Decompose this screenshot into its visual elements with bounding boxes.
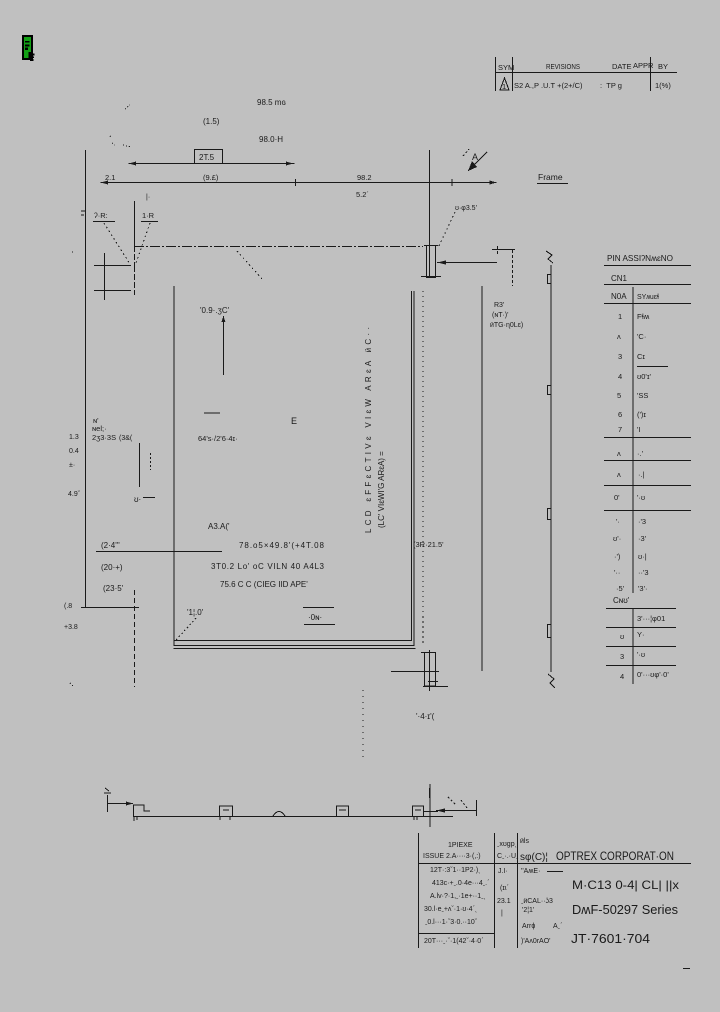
svg-text:Fɬʍ: Fɬʍ [637, 312, 650, 321]
svg-text:N0A: N0A [611, 292, 627, 301]
svg-text:REVISIONS: REVISIONS [546, 62, 580, 71]
svg-text:ʊ0'ɪ': ʊ0'ɪ' [637, 372, 652, 381]
svg-text:98.0·H: 98.0·H [259, 135, 283, 144]
svg-text:(ɪɩˊ: (ɪɩˊ [500, 885, 509, 892]
label 2 with tick [134, 495, 155, 504]
svg-text:'·: '· [616, 517, 620, 526]
svg-text:ˍ0.l···1·ˇ3·0.··10ˇ: ˍ0.l···1·ˇ3·0.··10ˇ [425, 919, 478, 926]
svg-text:sφ(C)¦: sφ(C)¦ [520, 852, 548, 863]
tolerance header [423, 842, 481, 860]
left main extension line [85, 150, 87, 607]
svg-text:(3&(: (3&( [119, 435, 133, 442]
svg-text:'·4·ɪ'(: '·4·ɪ'( [416, 712, 435, 721]
svg-text:CN1: CN1 [611, 274, 628, 283]
svg-text:5: 5 [617, 391, 621, 400]
svg-text:R3': R3' [494, 302, 504, 309]
page dash bottom right [683, 968, 690, 970]
svg-text:2T.5: 2T.5 [199, 153, 215, 162]
svg-text:4: 4 [618, 372, 622, 381]
svg-text:Cɴʊ': Cɴʊ' [613, 596, 630, 605]
svg-text:(ɴT·)': (ɴT·)' [492, 312, 508, 319]
svg-text:DATE: DATE [612, 62, 631, 71]
svg-text:98.2: 98.2 [357, 173, 372, 182]
name row [521, 868, 540, 875]
svg-text:ʌ: ʌ [617, 332, 621, 341]
tab 3 [337, 806, 349, 816]
svg-text:ˍxʊgpˎ: ˍxʊgpˎ [497, 841, 517, 848]
svg-text:Arrɸ: Arrɸ [522, 923, 535, 930]
svg-text:(2·4''': (2·4''' [101, 541, 120, 550]
svg-text:20T···ˍ·ˇ·1(42ˇ·4·0ˊ: 20T···ˍ·ˇ·1(42ˇ·4·0ˊ [424, 938, 484, 945]
svg-text:2.1: 2.1 [105, 173, 115, 182]
svg-text:4.9ˇ: 4.9ˇ [68, 491, 81, 498]
svg-text:A: A [472, 152, 478, 162]
svg-text:6: 6 [618, 410, 622, 419]
tolerance rows [424, 867, 489, 945]
svg-text:·3': ·3' [638, 534, 647, 543]
svg-text:'·ʊ: '·ʊ [637, 493, 645, 502]
top-left faint arc dots [110, 105, 131, 147]
top dimension texts [203, 98, 286, 144]
svg-text:'2¦1': '2¦1' [522, 907, 534, 914]
svg-text:S2 A.,P .U.T +(2+/C): S2 A.,P .U.T +(2+/C) [514, 81, 583, 90]
right dim [436, 810, 476, 812]
flatness detail box [303, 608, 335, 625]
svg-text:·'3: ·'3 [638, 517, 646, 526]
9.5 bracket marks [492, 246, 515, 286]
svg-text:''AʍE·: ''AʍE· [521, 868, 540, 875]
svg-text:0.4: 0.4 [69, 448, 79, 455]
extension line above corner [134, 201, 136, 246]
top-right mounting tab [421, 246, 441, 278]
display window left edge [173, 286, 175, 646]
svg-text:·5': ·5' [616, 584, 625, 593]
svg-text:(.8: (.8 [64, 603, 72, 610]
bottom-right mounting tab detail [391, 650, 448, 691]
svg-text:2ʒ3·3S: 2ʒ3·3S [92, 433, 116, 442]
svg-text:64's·/2'6·4ɪ·: 64's·/2'6·4ɪ· [198, 434, 238, 443]
svg-text:(LC' VIɛWI'G ARɛA) =: (LC' VIɛWI'G ARɛA) = [377, 451, 386, 528]
left dim [107, 795, 109, 812]
svg-text:ˍӥCAL··ʖ3: ˍӥCAL··ʖ3 [521, 898, 553, 905]
svg-text:J.I·: J.I· [498, 868, 508, 875]
svg-text:M·C13 0-4| CL| ||x: M·C13 0-4| CL| ||x [572, 878, 679, 892]
svg-text:1: 1 [618, 312, 622, 321]
svg-text:·.|: ·.| [638, 470, 645, 479]
svg-text:5.2´: 5.2´ [356, 190, 369, 199]
svg-text:A.lv·?·1,ˍ·1e+··1ˍˎ: A.lv·?·1,ˍ·1e+··1ˍˎ [430, 893, 486, 900]
svg-text:·.': ·.' [637, 449, 644, 458]
side view main line [546, 251, 555, 688]
svg-text:ʊ: ʊ [620, 632, 624, 641]
svg-text:'I: 'I [637, 425, 641, 434]
svg-text:BY: BY [658, 62, 668, 71]
fpc tick [99, 607, 101, 609]
pin assignment table [604, 253, 691, 684]
small dash feature [204, 412, 220, 414]
svg-text:E: E [291, 416, 297, 426]
svg-text:3: 3 [620, 652, 624, 661]
svg-text:: TP g: : TP g [600, 81, 622, 90]
svg-text:PIN ASSIʔNʍɛNO: PIN ASSIʔNʍɛNO [607, 253, 673, 263]
svg-text:'SS: 'SS [637, 391, 648, 400]
svg-text:(20·+): (20·+) [101, 563, 123, 572]
svg-text:ʊ·φ3.5': ʊ·φ3.5' [455, 205, 477, 212]
boxed reference dim 27.5 [195, 150, 223, 164]
svg-text:12T·:3ˇ1··1P2·)ˎ: 12T·:3ˇ1··1P2·)ˎ [430, 867, 481, 874]
svg-text:0'···ʊφ'·0': 0'···ʊφ'·0' [637, 670, 669, 679]
svg-text:SYM: SYM [498, 63, 514, 72]
svg-text:78.o5×49.8'(+4T.08: 78.o5×49.8'(+4T.08 [239, 541, 325, 550]
svg-text:'3'·: '3'· [638, 584, 648, 593]
svg-text:)'Aʌ0rAO': )'Aʌ0rAO' [521, 938, 551, 945]
svg-text:|: | [501, 910, 503, 917]
leader 2-R text top-left [93, 194, 158, 264]
green document icon [22, 35, 35, 61]
center dimension texts [208, 522, 325, 589]
bottom side view [104, 784, 477, 827]
revision triangle mark [500, 78, 509, 90]
scale row [521, 898, 553, 914]
svg-text:1.3: 1.3 [69, 434, 79, 441]
svg-text:'C·: 'C· [637, 332, 646, 341]
dotted leader top-left inner [237, 251, 263, 280]
svg-text:Y·: Y· [637, 630, 645, 639]
svg-text:(1.5): (1.5) [203, 117, 220, 126]
svg-text:·0ɴ·: ·0ɴ· [308, 613, 322, 622]
svg-text:'0.9·.ʒC': '0.9·.ʒC' [200, 306, 230, 315]
svg-text:(3R·21.5': (3R·21.5' [413, 540, 444, 549]
left dim line 2.4 group [96, 541, 222, 593]
svg-text:(9.£): (9.£) [203, 173, 219, 182]
svg-text:23.1: 23.1 [497, 898, 511, 905]
dotted leader to tab [422, 617, 424, 643]
display window bottom edges [174, 641, 416, 649]
module outer right edge (dotted) [422, 291, 424, 643]
svg-text:|·: |· [146, 194, 150, 201]
svg-text:3'···¦φ01: 3'···¦φ01 [637, 614, 665, 623]
svg-text:'·ʊ: '·ʊ [637, 650, 645, 659]
svg-text:ʊ·: ʊ· [134, 495, 141, 504]
right centerline [429, 784, 431, 827]
svg-text:··'3: ··'3 [638, 568, 649, 577]
Frame label [537, 172, 568, 184]
connector stem to module [429, 788, 431, 798]
svg-text:ӥTG·ɳ0Lɛ): ӥTG·ɳ0Lɛ) [490, 322, 523, 329]
svg-text:·'): ·') [614, 552, 621, 561]
display window right edges [412, 291, 415, 646]
svg-text:ʊ'·: ʊ'· [613, 534, 621, 543]
svg-text:1PIEXE: 1PIEXE [448, 842, 473, 849]
svg-text:OPTREX CORPORAT·ON: OPTREX CORPORAT·ON [556, 849, 674, 863]
vertical extension line right of module [481, 286, 483, 671]
svg-text:Frame: Frame [538, 172, 563, 182]
svg-text:JT·7601·704: JT·7601·704 [571, 932, 650, 946]
svg-text:1: 1 [502, 82, 506, 91]
long dimension line 98.2 [101, 173, 497, 199]
svg-text:'··: '·· [614, 568, 620, 577]
left tiny dim texts [64, 434, 133, 631]
stray mark left mid [70, 252, 75, 686]
svg-text:Aˍˊ: Aˍˊ [553, 923, 562, 930]
svg-text:ʊ·|: ʊ·| [638, 552, 647, 561]
section arrow A [463, 149, 487, 171]
svg-text:75.6 C C (CIEG IID APE': 75.6 C C (CIEG IID APE' [220, 580, 308, 589]
tab 2 [220, 806, 233, 816]
svg-text:A3.A(': A3.A(' [208, 522, 230, 531]
appr row [521, 923, 562, 945]
arc bump [273, 812, 285, 817]
svg-text:3: 3 [618, 352, 622, 361]
tab 4 [413, 806, 424, 816]
svg-text:ISSUE 2.A····3·(,:): ISSUE 2.A····3·(,:) [423, 853, 481, 860]
R3 MTG note [490, 302, 523, 329]
svg-text:ӥls: ӥls [520, 838, 529, 845]
side view break marks [546, 251, 553, 263]
svg-text:(')ɪ: (')ɪ [637, 410, 646, 419]
svg-text:4: 4 [620, 672, 624, 681]
svg-text:0': 0' [614, 493, 620, 502]
dim 0.9 arrow inside top [200, 306, 230, 375]
svg-text:7: 7 [618, 425, 622, 434]
note text K [92, 416, 116, 442]
svg-text:SYʍɹɛɬ: SYʍɹɛɬ [637, 294, 660, 301]
extension line at x=430 [429, 150, 431, 278]
pin1 marker line [139, 443, 141, 487]
svg-text:ʌ: ʌ [617, 449, 621, 458]
left step tab [134, 805, 151, 816]
svg-text:98.5 mɢ: 98.5 mɢ [257, 98, 286, 107]
design col [497, 841, 519, 917]
side view clips [548, 275, 552, 638]
module left edge upper [134, 246, 136, 295]
svg-text:413c·+ˍ.0·4e···4ˍ.ˊ: 413c·+ˍ.0·4e···4ˍ.ˊ [432, 880, 489, 887]
svg-text:3T0.2 Lo' oC VILN 40 A4L3: 3T0.2 Lo' oC VILN 40 A4L3 [211, 562, 325, 571]
module top edge (chain line) [134, 246, 423, 248]
svg-text:ɴel;·: ɴel;· [92, 424, 107, 433]
revision table [495, 57, 677, 91]
svg-text:Cˍ·.·Uˍ: Cˍ·.·Uˍ [497, 853, 519, 860]
svg-text:±·: ±· [69, 462, 75, 469]
rotated text right side [364, 327, 386, 533]
svg-text:DʍF-50297 Series: DʍF-50297 Series [572, 902, 678, 917]
svg-text:30.l·eˍ+ʌˇ·1·ʊ·4ˊˎ: 30.l·eˍ+ʌˇ·1·ʊ·4ˊˎ [424, 906, 477, 913]
main line [133, 816, 453, 818]
dimension line 27.5 [129, 162, 295, 166]
leader dim at corner [437, 205, 497, 265]
svg-text:ʔ·R:: ʔ·R: [94, 211, 108, 220]
svg-text:(23·5': (23·5' [103, 584, 124, 593]
small dim lines left of corner [81, 211, 131, 300]
dotted centerline below module [362, 690, 364, 760]
svg-text:Cɪ: Cɪ [637, 352, 645, 361]
svg-text:ʌ: ʌ [617, 470, 621, 479]
svg-text:APPR: APPR [633, 61, 654, 70]
svg-text:'1¦.0': '1¦.0' [187, 608, 204, 617]
module left edge lower dashed [134, 590, 136, 687]
svg-text:+3.8: +3.8 [64, 624, 78, 631]
svg-text:1(%): 1(%) [655, 81, 671, 90]
title block [418, 833, 691, 948]
leader from note to corner [176, 618, 196, 640]
svg-text:1·R: 1·R [142, 211, 155, 220]
